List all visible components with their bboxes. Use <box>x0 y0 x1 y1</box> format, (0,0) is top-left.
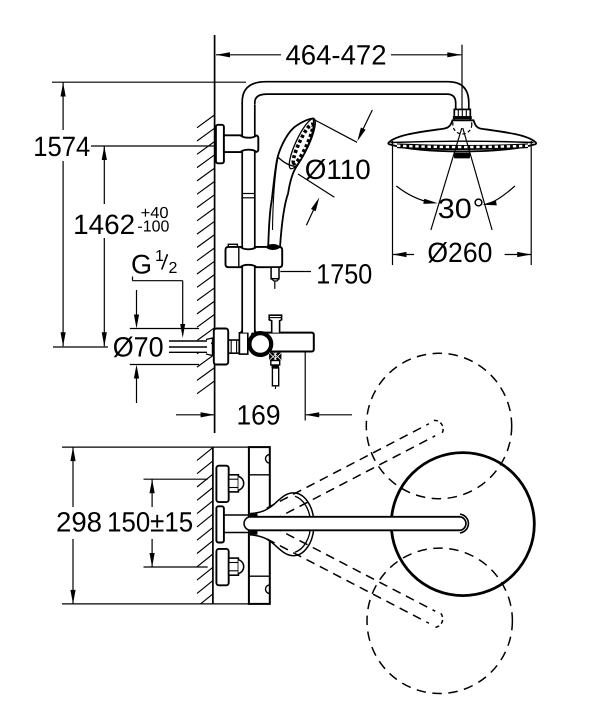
svg-text:Ø70: Ø70 <box>113 332 164 363</box>
dimension 150+-15 extension lines <box>144 478 208 480</box>
svg-text:G: G <box>131 250 152 280</box>
wall hatching (top view) <box>197 448 213 604</box>
wall bracket arm <box>224 135 258 152</box>
riser pipe <box>242 95 255 333</box>
top horizontal pipe with bends <box>242 82 469 109</box>
mixer body <box>252 333 314 352</box>
center holder tube <box>224 514 248 516</box>
dimension O260 extension lines <box>392 141 394 265</box>
hose outlet knurled block <box>269 353 281 361</box>
svg-text:1: 1 <box>155 248 164 265</box>
hose outlet stem <box>271 361 280 366</box>
riser pipe foot at valve <box>240 329 258 333</box>
shower arm pivot bars <box>250 514 258 518</box>
wall line (top view) <box>212 447 214 604</box>
upper swivel dashed circle <box>366 353 511 498</box>
upper supply union dome <box>238 476 243 490</box>
label 1750 leader <box>280 271 311 273</box>
hand shower neck line <box>278 157 297 167</box>
hand shower face plate <box>285 116 320 171</box>
lower supply union nut <box>229 558 239 575</box>
mixer union hex nut <box>228 340 239 353</box>
svg-text:1574: 1574 <box>33 131 90 162</box>
center outlet escutcheon <box>216 506 224 542</box>
dimension 464-472 line <box>216 54 461 56</box>
upper dashed arm <box>266 418 446 522</box>
svg-text:Ø260: Ø260 <box>427 237 492 268</box>
svg-text:2: 2 <box>169 260 178 277</box>
riser pipe joint <box>242 193 255 195</box>
dimension 169 extension line <box>304 352 306 421</box>
svg-text:464-472: 464-472 <box>286 40 387 71</box>
hand shower body <box>268 118 314 247</box>
shower arm left cap <box>244 517 250 531</box>
dimension 1462 extension line top <box>91 145 222 147</box>
head shower body <box>388 120 536 151</box>
lower swivel dashed circle <box>367 548 512 693</box>
hose connector below holder <box>271 267 279 279</box>
dimension O70 extension lines <box>130 328 199 330</box>
svg-text:169: 169 <box>237 399 281 430</box>
upper supply union nut <box>229 475 239 492</box>
mixer body screw notches <box>265 455 269 464</box>
head shower solid circle <box>391 453 534 596</box>
wall line (front view) <box>214 35 216 433</box>
diverter knob <box>269 315 281 332</box>
dimension 298 extension lines <box>62 446 270 448</box>
dimension O110 tangent lines <box>313 119 357 142</box>
hand shower handle cap in holder <box>266 244 279 250</box>
dimension 1574 extension line top <box>52 81 246 83</box>
dimension 169 arrows <box>176 414 214 416</box>
dimension O260 arrows <box>393 254 415 256</box>
svg-text:1462: 1462 <box>73 209 135 240</box>
dimension 1462 line <box>103 146 105 204</box>
dimension O110 arrow upper <box>360 110 373 137</box>
dimension 298 line <box>72 447 74 507</box>
wall escutcheon of mixer <box>214 329 228 365</box>
svg-text:Ø110: Ø110 <box>305 154 371 185</box>
mixer body top view <box>249 447 270 604</box>
head shower ball joint dashed <box>453 115 472 134</box>
shared bottom extension line of 1574 and 1462 <box>53 346 108 348</box>
supply pipe through wall <box>169 340 211 353</box>
hand shower holder block <box>228 244 237 248</box>
head shower drop nut <box>453 116 472 119</box>
head shower rim line <box>391 141 534 142</box>
dimension 1574 line <box>62 83 64 131</box>
lower dashed arm <box>266 526 446 630</box>
hand shower bell top view <box>250 493 314 556</box>
svg-text:1750: 1750 <box>316 259 372 290</box>
UPPER-VIEW <box>33 35 536 433</box>
dimension O70 arrows <box>136 290 138 316</box>
LOWER-VIEW <box>56 353 534 693</box>
svg-text:298: 298 <box>56 507 102 538</box>
dimension 464-472 right extension line <box>461 45 463 109</box>
shower arm end cap <box>460 514 468 533</box>
hand shower handle inner line <box>273 158 278 230</box>
spray angle arrow right <box>490 186 515 203</box>
wall bracket plate <box>216 125 224 164</box>
dimension 150+-15 line <box>151 479 153 507</box>
upper supply union escutcheon <box>216 466 228 502</box>
dimension O110 arrow lower <box>306 204 316 226</box>
lower supply union escutcheon <box>216 549 228 585</box>
head shower face nozzle band <box>397 143 528 150</box>
spray angle arrow left <box>396 186 430 203</box>
mixer union block <box>239 333 247 354</box>
spray angle lines <box>431 128 462 230</box>
shower arm solid <box>250 517 460 531</box>
svg-text:30: 30 <box>438 193 472 224</box>
svg-text:-100: -100 <box>137 219 169 236</box>
label G 1/2 leader <box>133 277 183 326</box>
lower supply union dome <box>238 560 243 574</box>
hand shower bell rim <box>295 496 311 552</box>
dimension 464-472 arrows <box>216 52 230 57</box>
head shower hub <box>454 153 470 159</box>
thermostat knob circle <box>249 333 271 355</box>
svg-text:150±15: 150±15 <box>107 507 193 538</box>
wall hatching (front view) <box>197 115 215 394</box>
